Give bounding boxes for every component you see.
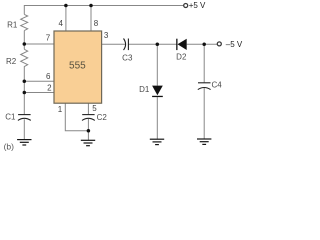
- svg-text:D2: D2: [176, 53, 187, 62]
- svg-text:4: 4: [58, 19, 63, 28]
- svg-text:8: 8: [94, 19, 99, 28]
- svg-text:C4: C4: [212, 81, 223, 90]
- svg-text:5: 5: [92, 104, 97, 113]
- svg-text:1: 1: [58, 105, 63, 114]
- svg-text:R2: R2: [6, 57, 17, 66]
- svg-text:6: 6: [46, 72, 51, 81]
- svg-text:(b): (b): [4, 142, 15, 152]
- svg-text:2: 2: [47, 83, 52, 92]
- svg-text:3: 3: [104, 31, 109, 40]
- svg-text:–5 V: –5 V: [226, 40, 243, 49]
- svg-text:C3: C3: [122, 54, 133, 63]
- svg-text:+5 V: +5 V: [189, 1, 206, 10]
- svg-text:C1: C1: [5, 112, 16, 121]
- svg-text:7: 7: [46, 34, 51, 43]
- svg-text:555: 555: [69, 61, 86, 72]
- svg-text:C2: C2: [97, 113, 108, 122]
- svg-text:D1: D1: [139, 85, 150, 94]
- svg-text:R1: R1: [7, 20, 18, 29]
